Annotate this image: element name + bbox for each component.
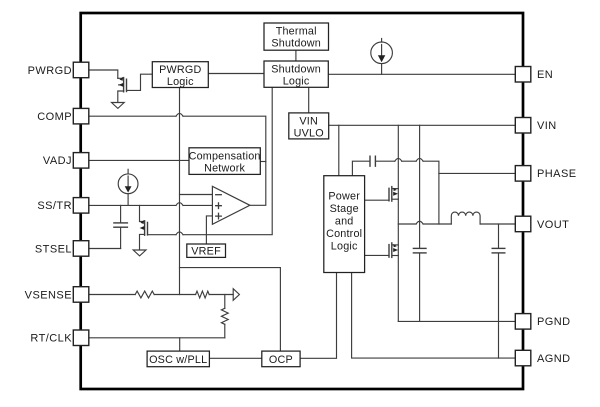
- wire SS/TR to EA plus input: [89, 204, 213, 206]
- svg-text:OCP: OCP: [269, 354, 293, 366]
- svg-text:VREF: VREF: [191, 246, 221, 258]
- wire R3 to RT/CLK: [224, 324, 226, 338]
- box OCP: [262, 351, 300, 367]
- divider branch down: [224, 295, 226, 309]
- svg-text:PWRGD: PWRGD: [28, 65, 72, 77]
- EA plus symbol 2: [216, 213, 222, 219]
- pin COMP: [73, 108, 89, 124]
- boxes: [147, 23, 364, 367]
- wire R2 to buffer: [209, 294, 233, 296]
- svg-text:SS/TR: SS/TR: [37, 200, 72, 212]
- wire comp network to COMP node: [260, 161, 266, 163]
- pin VADJ: [73, 153, 89, 169]
- wire Q3 gate: [365, 199, 389, 201]
- hop boot over Cin: [416, 158, 423, 161]
- box Power Stage and Control Logic: [324, 176, 365, 273]
- box Compensation Network: [189, 148, 260, 175]
- pin labels left: [25, 65, 73, 345]
- transistor Q1 open-drain: [118, 77, 127, 102]
- pin PWRGD: [73, 62, 89, 77]
- wire VSENSE: [89, 294, 135, 296]
- svg-text:Network: Network: [204, 162, 245, 174]
- buffer triangle: [233, 289, 239, 301]
- boot net: [352, 161, 439, 224]
- svg-text:Shutdown: Shutdown: [271, 63, 321, 75]
- svg-text:VIN: VIN: [537, 120, 557, 132]
- pin AGND: [515, 350, 531, 366]
- wire Q1 gate to PWRGD Logic: [127, 74, 153, 90]
- wire PWRGD Logic to Shutdown Logic: [208, 73, 264, 75]
- wire COMP to error amp output: [89, 116, 266, 205]
- pin VSENSE: [73, 287, 89, 303]
- box PWRGD Logic: [152, 62, 208, 88]
- svg-text:STSEL: STSEL: [35, 243, 72, 255]
- box VREF: [187, 244, 226, 257]
- pin VIN: [515, 118, 531, 134]
- capacitor C1 SS: [114, 205, 128, 248]
- svg-text:PWRGD: PWRGD: [159, 64, 201, 76]
- box texts: [149, 26, 362, 366]
- wire R1 to R2: [154, 294, 195, 296]
- current source I1 SS: [118, 169, 138, 205]
- main power vertical: [397, 125, 399, 321]
- wire RT/CLK: [89, 337, 225, 339]
- ground under Q1: [112, 103, 125, 109]
- pin EN: [515, 67, 531, 83]
- hop gate net over node V1: [176, 232, 183, 235]
- svg-text:PGND: PGND: [537, 316, 571, 328]
- pin PHASE: [515, 166, 531, 182]
- wire VIN: [329, 124, 516, 126]
- outer frame: [81, 13, 523, 389]
- svg-text:UVLO: UVLO: [294, 127, 324, 139]
- inductor L1: [451, 212, 480, 224]
- current source I2 EN: [371, 39, 393, 75]
- hop phase over Cin: [416, 221, 423, 224]
- svg-text:Control: Control: [326, 228, 362, 240]
- wire OCP to power stage: [300, 273, 336, 359]
- resistor R2: [196, 291, 210, 298]
- pin STSEL: [73, 241, 89, 257]
- wire VIN to power stage top: [338, 125, 340, 175]
- svg-text:Stage: Stage: [330, 203, 359, 215]
- svg-text:Thermal: Thermal: [276, 26, 317, 38]
- pin squares: [73, 62, 531, 366]
- svg-text:AGND: AGND: [537, 353, 571, 365]
- wire RT/CLK to OSC: [179, 338, 181, 351]
- pin PGND: [515, 314, 531, 330]
- svg-text:Logic: Logic: [283, 75, 310, 87]
- pin labels right: [537, 69, 577, 365]
- wire EA plus2 to VREF: [206, 216, 212, 244]
- transistor Q2 SS discharge: [140, 205, 148, 249]
- svg-text:OSC w/PLL: OSC w/PLL: [149, 354, 207, 366]
- wire Q4 gate: [365, 254, 389, 256]
- wire PHASE: [439, 172, 515, 174]
- wire AGND: [352, 273, 516, 359]
- svg-text:VADJ: VADJ: [43, 155, 72, 167]
- wire thermal shutdown link: [295, 50, 297, 61]
- box Thermal Shutdown: [264, 23, 329, 50]
- wire OSC to OCP: [209, 357, 261, 359]
- wire PWRGD pin to Q1 drain: [89, 70, 118, 78]
- svg-text:RT/CLK: RT/CLK: [30, 333, 72, 345]
- svg-text:Compensation: Compensation: [189, 150, 261, 162]
- wire STSEL: [89, 248, 121, 250]
- node V1 vertical PWRGD Logic to VSENSE: [179, 88, 181, 295]
- svg-text:VOUT: VOUT: [537, 219, 569, 231]
- box Shutdown Logic: [264, 61, 328, 87]
- hop SS/TR over node V1: [176, 203, 183, 206]
- hop boot over FET drain: [395, 158, 402, 161]
- transistor Q3 high side: [389, 187, 398, 202]
- pin SS/TR: [73, 198, 89, 214]
- capacitor C2 boot: [370, 156, 375, 166]
- EA minus symbol: [216, 194, 222, 196]
- box VIN UVLO: [289, 113, 329, 139]
- EA plus symbol 1: [216, 203, 222, 209]
- wire EA minus input: [180, 194, 213, 196]
- resistor R3: [221, 308, 228, 324]
- wire Q2 gate net to shutdown logic: [148, 87, 273, 234]
- svg-text:and: and: [335, 216, 354, 228]
- wire EN: [328, 73, 515, 75]
- svg-text:PHASE: PHASE: [537, 168, 577, 180]
- wire shutdown to VIN UVLO: [308, 87, 310, 113]
- svg-text:VIN: VIN: [299, 115, 318, 127]
- svg-text:EN: EN: [537, 69, 553, 81]
- capacitor C3 input: [413, 125, 426, 321]
- pin VOUT: [515, 216, 531, 232]
- svg-text:COMP: COMP: [37, 111, 72, 123]
- wire inductor to VOUT: [480, 223, 515, 225]
- pin RT/CLK: [73, 330, 89, 346]
- transistor Q4 low side: [389, 243, 398, 258]
- svg-text:Logic: Logic: [331, 241, 358, 253]
- svg-text:VSENSE: VSENSE: [25, 289, 72, 301]
- capacitor C4 output: [492, 224, 505, 358]
- op-amp EA: [212, 186, 250, 224]
- svg-text:Power: Power: [328, 191, 360, 203]
- wire PGND: [398, 320, 515, 322]
- wire VADJ to Compensation Network: [89, 159, 189, 161]
- box OSC w/PLL: [147, 351, 209, 367]
- wire phase node: [398, 223, 451, 225]
- ground under Q2: [133, 250, 146, 256]
- svg-text:Shutdown: Shutdown: [271, 38, 321, 50]
- resistor R1: [135, 291, 154, 298]
- svg-text:Logic: Logic: [167, 76, 194, 88]
- hop COMP over node V1: [176, 113, 183, 116]
- wire node V1 to OCP: [180, 268, 281, 352]
